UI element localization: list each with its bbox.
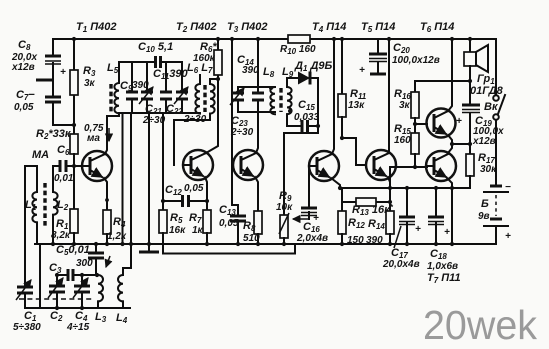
resistor R5 [159, 210, 167, 254]
capacitor C23 trimmer [230, 87, 244, 112]
wire top supply rail right part [310, 38, 496, 40]
speaker Gr1 [464, 37, 488, 105]
svg-text:0,05: 0,05 [219, 218, 239, 229]
svg-text:Б: Б [481, 198, 489, 210]
svg-text:R3: R3 [83, 65, 96, 78]
node base T1 [72, 164, 76, 168]
svg-text:16к: 16к [169, 225, 186, 236]
inductor L6 [195, 75, 200, 114]
resistor R16 [411, 81, 419, 133]
node R13/R14 junction [388, 200, 392, 204]
svg-text:R4: R4 [113, 216, 126, 229]
wire long vertical b [129, 113, 133, 246]
svg-text:C10 5,1: C10 5,1 [138, 41, 173, 54]
wire tank2 feed from rail [256, 37, 260, 87]
svg-text:3к: 3к [84, 78, 96, 89]
inductor L4 [118, 244, 131, 308]
resistor R2 [70, 123, 78, 166]
resistor R17 [452, 144, 474, 188]
mechanical gang dashed link [19, 298, 92, 300]
wire bottom tuning rail [25, 307, 130, 309]
capacitor C8 electrolytic [36, 39, 66, 97]
inductor L7 [174, 79, 218, 165]
svg-text:C18: C18 [430, 248, 447, 261]
svg-text:Вк: Вк [484, 101, 499, 113]
wire antenna frame [25, 166, 37, 287]
capacitor C15 [287, 120, 320, 132]
capacitor C17 electrolytic [394, 188, 421, 248]
resistor R9 potentiometer [279, 213, 309, 246]
core L6/L7 [203, 85, 206, 112]
svg-text:C20: C20 [393, 42, 410, 55]
wire feedback line to switch node [415, 79, 472, 83]
capacitor C20 electrolytic [359, 39, 387, 76]
svg-text:+: + [505, 231, 511, 242]
wire T5 emitter [388, 177, 390, 188]
svg-text:L2: L2 [57, 199, 69, 212]
svg-text:+: + [313, 213, 319, 224]
svg-text:0,05: 0,05 [184, 183, 204, 194]
svg-text:3к: 3к [399, 100, 411, 111]
svg-text:L4: L4 [116, 312, 128, 325]
wire output tap to speaker branch [450, 142, 472, 146]
transistor T2 [183, 150, 213, 180]
wire C12/R5 branch vertical [162, 113, 164, 210]
svg-text:+: + [359, 65, 365, 76]
svg-text:ма: ма [87, 133, 100, 144]
inductor L2 [51, 166, 58, 246]
capacitor C19 electrolytic [456, 105, 480, 144]
svg-text:160: 160 [394, 135, 411, 146]
svg-text:C2: C2 [50, 310, 63, 323]
svg-text:20wek: 20wek [423, 302, 537, 348]
wire tank1 bottom line [119, 112, 200, 114]
current arrow [108, 128, 110, 141]
svg-text:510: 510 [243, 233, 260, 244]
transistor T6 [427, 109, 456, 138]
inductor L3 [95, 273, 103, 308]
svg-text:x12в: x12в [11, 62, 35, 73]
inductor L1 [32, 166, 37, 244]
svg-text:C3: C3 [49, 262, 62, 275]
wire tank2 top line [238, 86, 275, 88]
node T6 base tap [413, 122, 427, 126]
svg-text:+: + [444, 227, 450, 238]
wire rail interconnect [39, 244, 41, 308]
svg-text:100,0x12в: 100,0x12в [392, 55, 440, 66]
wire T3 base feed vertical [230, 37, 234, 165]
svg-text:0,01: 0,01 [54, 173, 74, 184]
wire T6 collector to rail [448, 37, 454, 111]
capacitor C18 electrolytic [428, 188, 450, 246]
capacitor C16 electrolytic [301, 166, 319, 224]
resistor R14 [386, 188, 394, 246]
svg-text:−: − [505, 182, 511, 193]
battery B 9v [484, 182, 511, 244]
wire T6 emitter to T7 collector [448, 135, 452, 153]
svg-text:+: + [415, 224, 421, 235]
wire T3 emitter to R8 [255, 177, 258, 211]
svg-text:C11390: C11390 [153, 68, 189, 81]
svg-text:C50,01: C50,01 [56, 244, 90, 257]
svg-text:30к: 30к [480, 164, 497, 175]
svg-text:R14: R14 [368, 218, 385, 231]
capacitor C13 [230, 165, 246, 246]
transistor T3 [233, 150, 263, 180]
svg-text:+: + [60, 67, 66, 78]
svg-text:МА: МА [32, 149, 49, 161]
svg-text:C15: C15 [298, 99, 315, 112]
resistor R10 (inline in rail) [288, 35, 310, 43]
switch Vk [493, 39, 505, 184]
node emitter rail [450, 242, 454, 246]
wire T5 collector to rail [387, 37, 391, 153]
resistor R6 [214, 37, 222, 81]
svg-text:R7: R7 [189, 212, 202, 225]
annotation arrow near C5 [106, 256, 110, 267]
svg-text:2÷30: 2÷30 [230, 127, 254, 138]
capacitor C14 [252, 87, 264, 112]
resistor R15 [411, 133, 419, 169]
wire tank1 top line [119, 61, 182, 63]
svg-text:L5: L5 [107, 62, 119, 75]
wire T4 emitter [331, 178, 340, 188]
wire tank2 bottom line [238, 111, 275, 113]
inductor L9 [287, 78, 292, 126]
capacitor C12 [161, 195, 209, 207]
resistor R11 [338, 37, 366, 165]
svg-text:150: 150 [347, 235, 364, 246]
capacitor C7 [45, 97, 74, 125]
svg-text:10к: 10к [276, 202, 293, 213]
svg-text:+: + [456, 116, 462, 127]
svg-text:R2*33к: R2*33к [36, 128, 72, 141]
resistor R1 [70, 166, 78, 246]
capacitor C22 trimmer [174, 62, 188, 113]
capacitor C6 [53, 160, 82, 172]
svg-text:300: 300 [76, 258, 93, 269]
svg-text:C6: C6 [57, 144, 70, 157]
wire T3 collector to tank2 [256, 112, 258, 153]
resistor R8 [254, 211, 262, 246]
svg-text:T2 П402: T2 П402 [176, 21, 217, 34]
capacitor C10 [156, 56, 161, 68]
svg-text:T3 П402: T3 П402 [227, 21, 268, 34]
svg-text:5÷380: 5÷380 [13, 322, 41, 333]
svg-text:x12в: x12в [472, 136, 496, 147]
transistor T7 [426, 151, 456, 181]
wire T1 collector to L5 [105, 116, 119, 154]
svg-text:1,2к: 1,2к [107, 231, 127, 242]
svg-text:R12: R12 [348, 217, 365, 230]
svg-text:0,05: 0,05 [14, 102, 34, 113]
wire emitter bus [338, 186, 470, 190]
resistor R13 horizontal [342, 198, 390, 206]
svg-text:390: 390 [242, 65, 259, 76]
ground [139, 244, 159, 252]
svg-text:T6 П14: T6 П14 [420, 21, 454, 34]
svg-text:1к: 1к [192, 225, 204, 236]
wire main bottom rail [35, 243, 496, 245]
svg-text:9в: 9в [478, 211, 490, 222]
svg-text:C22: C22 [166, 103, 183, 116]
capacitor C9 [126, 62, 138, 113]
svg-text:L8: L8 [263, 66, 275, 79]
svg-text:1,0x6в: 1,0x6в [427, 261, 458, 272]
svg-text:13к: 13к [348, 100, 365, 111]
wire detector to volume pot [284, 133, 318, 215]
svg-text:Д1 Д9Б: Д1 Д9Б [294, 60, 333, 73]
svg-text:T4 П14: T4 П14 [312, 21, 346, 34]
svg-text:L3: L3 [95, 311, 107, 324]
inductor L8 [269, 86, 275, 114]
capacitor C1 variable [16, 280, 33, 308]
resistor R12 [338, 188, 346, 246]
core L8/L9 [279, 88, 282, 112]
svg-text:T7 П11: T7 П11 [427, 272, 461, 285]
wire T7 emitter down [447, 178, 452, 244]
svg-text:160к: 160к [193, 53, 216, 64]
capacitor C4 variable [73, 273, 90, 310]
capacitor C5 [88, 242, 104, 275]
svg-text:20,0x4в: 20,0x4в [382, 259, 420, 270]
svg-text:2,0x4в: 2,0x4в [296, 233, 328, 244]
core L5 [109, 84, 112, 112]
wire long vertical a [120, 113, 124, 246]
svg-text:C7−: C7− [16, 89, 35, 102]
wire top supply rail left part [53, 38, 288, 40]
diode D1 D9B [287, 72, 318, 85]
svg-text:8,2к: 8,2к [51, 230, 71, 241]
svg-text:0,033: 0,033 [294, 112, 319, 123]
svg-text:C8: C8 [18, 39, 31, 52]
svg-text:C12: C12 [165, 184, 182, 197]
svg-text:T5 П14: T5 П14 [361, 21, 395, 34]
svg-text:R10 160: R10 160 [280, 44, 316, 56]
svg-text:L1: L1 [25, 199, 37, 212]
svg-text:390: 390 [366, 235, 383, 246]
wire long vertical c [147, 113, 151, 246]
capacitor C3 [57, 269, 98, 281]
capacitor C2 variable [48, 273, 65, 310]
resistor R7 [203, 201, 211, 246]
transistor T5 [366, 150, 396, 180]
wire secondary return line [163, 244, 295, 254]
inductor L5 [114, 62, 119, 116]
ferrite core rod [43, 183, 46, 227]
svg-text:T1 П402: T1 П402 [76, 21, 117, 34]
svg-text:4÷15: 4÷15 [66, 322, 90, 333]
transistor T4 [309, 151, 339, 181]
capacitor C21 trimmer [139, 62, 153, 113]
wire detector node vertical [317, 78, 319, 133]
wire T2 collector [206, 79, 218, 153]
wire T1 emitter to R4 [104, 178, 107, 210]
wire T2 emitter to R7 [205, 177, 207, 201]
svg-text:R5: R5 [170, 212, 183, 225]
capacitor C11 [160, 62, 172, 113]
svg-text:01ГД8: 01ГД8 [470, 85, 504, 97]
wire T7 base line [390, 167, 427, 198]
transistor T1 [82, 151, 112, 181]
resistor R4 [103, 210, 111, 246]
wire T4 collector to rail [332, 37, 336, 154]
resistor R3 [70, 37, 78, 134]
